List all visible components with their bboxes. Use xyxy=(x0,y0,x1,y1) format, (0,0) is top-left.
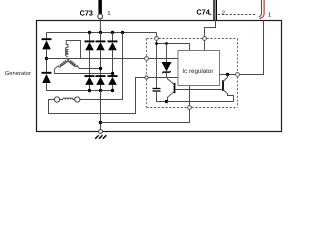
terminal circle N (neutral) xyxy=(145,57,149,61)
wire C74 pin2 double cable xyxy=(213,0,217,20)
diode D4 (bottom col1) xyxy=(85,76,95,85)
diode D1 (top col1) xyxy=(85,41,95,50)
wire B+ feed down to field brush xyxy=(80,33,123,100)
wire L terminal to C74-1 xyxy=(239,21,263,75)
svg-text:Generator: Generator xyxy=(5,70,31,77)
rotor slip ring right xyxy=(75,97,80,102)
C74 pin 2 label xyxy=(222,10,225,16)
junction Q1 emitter ground xyxy=(165,100,168,103)
terminal circle chassis ground xyxy=(99,130,103,134)
svg-text:1: 1 xyxy=(107,11,110,17)
wire F terminal line (field drive) xyxy=(148,77,178,79)
connector C73 label xyxy=(80,8,93,17)
junction Q2 collector xyxy=(226,73,229,76)
diode D7 (neutral top) xyxy=(42,39,52,49)
junction bottom rail col1 xyxy=(88,89,91,92)
IC regulator box U1 xyxy=(178,51,220,86)
diode D5 (bottom col2) xyxy=(96,76,106,85)
wire C73 output cable (thick) xyxy=(98,0,102,14)
wire L output line xyxy=(219,74,236,76)
wire rectifier column 1 xyxy=(89,33,91,91)
terminal circle E (ground) xyxy=(188,106,192,110)
zener diode ZD1 xyxy=(162,44,172,78)
terminal circle B (rail input) xyxy=(155,37,159,41)
capacitor C1 xyxy=(153,89,167,102)
wire phase B to column2 xyxy=(77,65,101,68)
svg-text:C74: C74 xyxy=(196,8,210,17)
generator outer box xyxy=(37,21,282,132)
svg-text:1: 1 xyxy=(268,12,271,18)
wire rectifier column 3 xyxy=(112,33,114,91)
wire top rail (B+) xyxy=(47,32,157,34)
svg-text:C73: C73 xyxy=(80,8,93,17)
junction top rail field feed xyxy=(121,31,124,34)
wire top rail into regulator B terminal xyxy=(156,33,158,37)
junction phase B col2 xyxy=(99,67,102,70)
wire bottom rail (ground) xyxy=(47,90,113,92)
rotor field coil xyxy=(60,98,75,100)
C73 pin 1 label xyxy=(107,11,110,17)
wire left diode branch xyxy=(46,33,48,91)
wire C74 pin1 red cable xyxy=(259,0,264,18)
wire IG terminal to IC top xyxy=(204,40,206,50)
junction bottom rail col2 xyxy=(99,89,102,92)
junction neutral tap xyxy=(45,57,48,60)
stator coil phase A (vertical) xyxy=(66,47,68,56)
regulator assembly dashed box xyxy=(147,39,238,108)
diode D3 (top col3) xyxy=(108,41,118,50)
wire ground stem to chassis xyxy=(100,91,102,130)
wire phase A top zig to tap xyxy=(66,41,80,59)
wire C73 to top rail xyxy=(99,19,101,33)
rotor slip ring left xyxy=(54,97,59,102)
wire slip ring left to regulator F terminal xyxy=(49,78,145,114)
wire neutral line to regulator N terminal xyxy=(47,58,179,60)
svg-text:Ic regulator: Ic regulator xyxy=(182,68,213,75)
junction ground bus xyxy=(99,121,102,124)
junction top rail col1 xyxy=(88,31,91,34)
junction bottom rail col3 xyxy=(111,89,114,92)
connector C74 label xyxy=(196,8,210,17)
transistor Q1 xyxy=(168,78,175,102)
junction top rail col3 xyxy=(111,31,114,34)
diode D2 (top col2) xyxy=(96,41,106,50)
junction B+ zener branch xyxy=(165,42,168,45)
stator coil phase B (down-right) xyxy=(68,59,77,66)
terminal circle L output xyxy=(236,73,240,77)
C74 pin 1 label xyxy=(268,12,271,18)
wire E pin from IC bottom xyxy=(189,86,191,106)
wire phase C to column3 xyxy=(55,66,113,74)
wire C74-2 to IG terminal xyxy=(205,20,216,37)
wire B+ internal node xyxy=(157,40,190,88)
wire rectifier column 2 xyxy=(100,33,102,91)
wire ground bus to regulator E xyxy=(101,109,190,122)
terminal circle F (field) xyxy=(145,76,148,79)
connector C74 outline (dashed) xyxy=(209,14,256,16)
diode D6 (bottom col3) xyxy=(108,76,118,85)
junction top rail col2 xyxy=(99,31,102,34)
label Generator xyxy=(5,70,31,77)
stator coil phase C (down-left) xyxy=(58,59,67,67)
transistor Q2 xyxy=(223,75,234,102)
junction B+ cap branch xyxy=(155,42,158,45)
svg-text:2: 2 xyxy=(222,10,225,16)
terminal circle C73-1 xyxy=(98,14,103,19)
wire base bus Q1-Q2 xyxy=(175,89,224,91)
wire internal ground line xyxy=(167,101,234,103)
junction phase C col3 xyxy=(111,72,114,75)
ground symbol xyxy=(95,135,106,139)
diode D8 (neutral bottom) xyxy=(42,73,52,83)
terminal circle IG input xyxy=(203,37,207,41)
